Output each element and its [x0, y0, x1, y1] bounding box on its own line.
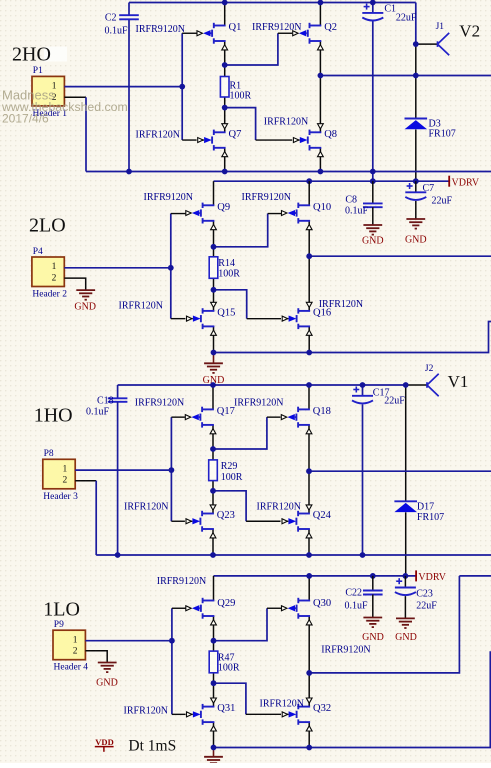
svg-text:IRFR9120N: IRFR9120N	[242, 192, 291, 203]
svg-text:Q23: Q23	[217, 510, 235, 521]
svg-text:FR107: FR107	[429, 129, 456, 140]
svg-text:IRFR120N: IRFR120N	[260, 698, 304, 709]
svg-text:0.1uF: 0.1uF	[104, 26, 128, 37]
svg-text:J2: J2	[425, 364, 434, 374]
svg-text:GND: GND	[395, 632, 417, 643]
svg-text:V1: V1	[448, 372, 469, 391]
svg-text:100R: 100R	[218, 269, 240, 280]
svg-text:IRFR9120N: IRFR9120N	[135, 398, 184, 409]
svg-text:100R: 100R	[230, 91, 252, 102]
svg-text:IRFR9120N: IRFR9120N	[157, 576, 206, 587]
svg-text:GND: GND	[362, 235, 384, 246]
svg-text:Header 2: Header 2	[32, 290, 67, 300]
svg-text:Q2: Q2	[324, 22, 337, 33]
svg-text:1: 1	[63, 465, 68, 475]
svg-text:P8: P8	[44, 449, 54, 459]
svg-text:C18: C18	[97, 396, 114, 407]
svg-text:IRFR120N: IRFR120N	[136, 129, 180, 140]
svg-text:Q18: Q18	[313, 406, 331, 417]
svg-text:IRFR120N: IRFR120N	[119, 301, 163, 312]
svg-text:IRFR9120N: IRFR9120N	[234, 398, 283, 409]
svg-text:C23: C23	[416, 589, 433, 600]
svg-text:IRFR120N: IRFR120N	[124, 706, 168, 717]
svg-text:GND: GND	[362, 632, 384, 643]
svg-text:Q29: Q29	[217, 598, 235, 609]
svg-text:Q30: Q30	[313, 598, 331, 609]
svg-text:IRFR9120N: IRFR9120N	[136, 24, 185, 35]
svg-text:22uF: 22uF	[396, 13, 417, 24]
svg-text:22uF: 22uF	[432, 195, 453, 206]
svg-text:C8: C8	[345, 195, 357, 206]
svg-text:Q10: Q10	[313, 202, 331, 213]
svg-text:VDD: VDD	[95, 737, 113, 747]
svg-text:Q9: Q9	[217, 202, 230, 213]
svg-text:IRFR120N: IRFR120N	[257, 502, 301, 513]
svg-text:Q8: Q8	[324, 129, 337, 140]
svg-text:GND: GND	[96, 678, 118, 689]
svg-text:Q31: Q31	[217, 703, 235, 714]
svg-text:2: 2	[52, 273, 57, 283]
svg-text:Q1: Q1	[229, 22, 242, 33]
svg-text:0.1uF: 0.1uF	[86, 407, 110, 418]
svg-text:1HO: 1HO	[34, 405, 73, 427]
svg-text:22uF: 22uF	[384, 396, 405, 407]
svg-text:Q24: Q24	[313, 510, 332, 521]
svg-text:IRFR120N: IRFR120N	[319, 299, 363, 310]
svg-text:P4: P4	[33, 247, 43, 257]
svg-text:2LO: 2LO	[29, 215, 66, 237]
svg-text:IRFR9120N: IRFR9120N	[144, 192, 193, 203]
svg-text:2: 2	[63, 476, 68, 486]
svg-text:Dt 1mS: Dt 1mS	[128, 737, 176, 754]
svg-text:P1: P1	[33, 66, 43, 76]
svg-text:22uF: 22uF	[416, 601, 437, 612]
svg-text:GND: GND	[74, 302, 96, 313]
svg-text:1LO: 1LO	[43, 599, 80, 621]
svg-text:Q17: Q17	[217, 406, 235, 417]
svg-text:1: 1	[73, 635, 78, 645]
svg-text:P9: P9	[54, 620, 64, 630]
svg-text:C1: C1	[384, 4, 396, 15]
svg-text:C7: C7	[423, 183, 435, 194]
svg-text:R14: R14	[218, 258, 235, 269]
svg-text:Q15: Q15	[217, 308, 235, 319]
svg-text:0.1uF: 0.1uF	[344, 601, 368, 612]
svg-text:IRFR9120N: IRFR9120N	[252, 22, 301, 33]
svg-text:Q7: Q7	[229, 129, 242, 140]
svg-text:2: 2	[73, 647, 78, 657]
svg-text:J1: J1	[436, 22, 445, 32]
svg-text:Header 3: Header 3	[43, 492, 78, 502]
svg-text:VDRV: VDRV	[452, 177, 480, 188]
svg-text:100R: 100R	[218, 663, 240, 674]
svg-text:Q32: Q32	[313, 703, 331, 714]
svg-text:IRFR120N: IRFR120N	[124, 502, 168, 513]
svg-text:0.1uF: 0.1uF	[345, 205, 369, 216]
svg-text:100R: 100R	[221, 472, 243, 483]
svg-text:Header 4: Header 4	[54, 663, 89, 673]
svg-text:IRFR9120N: IRFR9120N	[321, 645, 370, 656]
svg-text:1: 1	[52, 262, 57, 272]
svg-text:IRFR120N: IRFR120N	[264, 117, 308, 128]
svg-text:GND: GND	[405, 235, 427, 246]
svg-text:C2: C2	[105, 13, 117, 24]
svg-text:VDRV: VDRV	[418, 572, 446, 583]
svg-text:2017/4/6: 2017/4/6	[2, 111, 49, 125]
svg-text:V2: V2	[459, 22, 480, 41]
svg-text:C22: C22	[345, 588, 362, 599]
svg-text:R29: R29	[221, 461, 238, 472]
svg-text:2HO: 2HO	[12, 43, 51, 65]
svg-text:FR107: FR107	[417, 512, 444, 523]
